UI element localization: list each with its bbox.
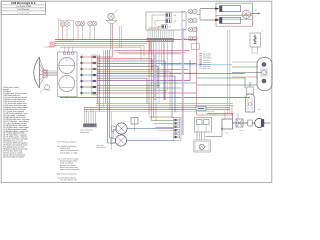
- fuel gauge: [59, 76, 75, 92]
- wiper feed wires: [197, 9, 202, 20]
- wire green mid 2: [150, 82, 197, 84]
- dynamo body: [257, 58, 272, 91]
- svg-text:←: ←: [186, 141, 188, 143]
- title block box: [1, 1, 45, 14]
- fuse element 3: [162, 25, 172, 29]
- notes column text: [57, 142, 79, 182]
- wiper field arrow 2: [202, 19, 219, 21]
- svg-text:head dip: head dip: [203, 60, 209, 62]
- wire red feed 2: [55, 42, 150, 52]
- svg-text:under bonnet: under bonnet: [96, 146, 106, 149]
- svg-text:Carl Wehner: Carl Wehner: [17, 8, 30, 11]
- wire grey vert: [102, 50, 104, 107]
- horn earth drop: [111, 112, 113, 151]
- wire purple mid: [97, 61, 165, 100]
- junction block leads: [84, 107, 95, 123]
- title text line 2: [16, 5, 32, 8]
- wire pink low: [84, 111, 215, 113]
- wiper group red box: [216, 16, 253, 27]
- svg-text:1948 Morris Eight Sr E: 1948 Morris Eight Sr E: [11, 2, 36, 5]
- wire cyan low 2: [96, 104, 233, 106]
- wire red vert 2: [104, 50, 106, 103]
- lamp pair tail RH: [188, 9, 197, 14]
- headlamp reflector: [34, 57, 40, 88]
- wiper motor output lead: [251, 10, 260, 14]
- foot dimmer sketch: [40, 84, 50, 94]
- control box: [146, 12, 186, 30]
- ignition mini legend: [199, 54, 211, 70]
- horn output wires: [127, 129, 174, 141]
- lamp pair tail LH: [188, 18, 197, 23]
- ignition coil: [246, 94, 255, 112]
- wire green long 2: [66, 97, 68, 98]
- svg-text:F: F: [262, 31, 263, 33]
- panel lamp leads: [63, 26, 95, 40]
- lamp pair stop: [188, 36, 197, 41]
- coil lead: [249, 82, 251, 87]
- speedometer: [59, 58, 75, 74]
- interior lamp shade: [106, 20, 117, 23]
- headlamp harness: [48, 71, 58, 76]
- wire red main: [97, 72, 196, 74]
- svg-text:panel feed: panel feed: [203, 68, 211, 70]
- wire dark right: [197, 84, 258, 86]
- title text line 3: [17, 8, 30, 11]
- wire red feed 1: [55, 39, 197, 41]
- horn trumpet 2: [111, 138, 116, 144]
- svg-text:behind dash: behind dash: [80, 132, 89, 134]
- svg-text:panel: panel: [57, 18, 62, 20]
- svg-text:rev 2 Jan 2004: rev 2 Jan 2004: [17, 13, 29, 15]
- lamp pair number plate: [188, 27, 197, 32]
- chassis connector strip: [174, 118, 182, 141]
- wire purple mid 2: [97, 60, 190, 81]
- strip A to B jumpers: [82, 57, 92, 93]
- wiper park switch: [220, 6, 241, 12]
- wire tan mid 1: [97, 68, 188, 70]
- lamp column feed wire: [182, 12, 186, 39]
- instrument top terminals: [64, 48, 74, 55]
- panel cluster label: [57, 18, 62, 20]
- headlamp label: [44, 46, 54, 48]
- flasher element: [253, 35, 256, 45]
- wire dark mid: [97, 66, 158, 88]
- horn trumpet 1: [112, 126, 117, 132]
- svg-text:horn feed: horn feed: [203, 64, 210, 66]
- legend: wiring colour codes list: [3, 87, 29, 158]
- wire tan feed 1: [55, 45, 144, 56]
- regulator leads down: [197, 132, 204, 140]
- svg-text:34 Interior light and switch: 34 Interior light and switch: [3, 156, 24, 159]
- interior lamp wires: [111, 24, 113, 51]
- wire cyan mid: [161, 64, 232, 66]
- svg-text:head main: head main: [203, 62, 211, 64]
- title text line 4: [17, 13, 29, 15]
- starter motor: [255, 118, 271, 127]
- inline connector on harness: [196, 106, 206, 110]
- wire dark mid 2: [97, 78, 147, 104]
- harness verticals below fuse strip: [149, 42, 172, 122]
- fuse element 2: [166, 19, 177, 23]
- wire red vert: [96, 57, 98, 104]
- battery box: [222, 119, 233, 135]
- wire cyan low 1: [96, 102, 233, 104]
- wire brown low: [84, 106, 230, 108]
- ignition switch drops: [120, 26, 122, 48]
- title block row lines: [1, 5, 45, 11]
- fuel pump box: [194, 140, 211, 152]
- horn feed wires: [108, 130, 116, 144]
- horn low note: [115, 135, 126, 146]
- coil cap: [247, 87, 254, 94]
- dynamo internals: [261, 63, 267, 84]
- lamp column box: [192, 44, 200, 50]
- chassis strip leads: [149, 117, 174, 131]
- border frame: [1, 1, 272, 182]
- terminal strip under control box: [147, 38, 175, 41]
- wire dkgreen mid: [97, 62, 196, 64]
- panel warning lamps pair 3: [88, 21, 97, 26]
- pink wire pair: [228, 30, 230, 113]
- wire tan feed 2: [60, 47, 141, 60]
- svg-text:side lamps: side lamps: [203, 58, 211, 60]
- dynamo leads: [232, 62, 261, 77]
- terminal strip pin leads: [148, 30, 173, 38]
- flasher lower block: [252, 47, 258, 53]
- wire green mid 3: [97, 87, 181, 89]
- wiper field arrow 1: [202, 7, 219, 9]
- coil label: [258, 109, 261, 111]
- title text line 1: [11, 2, 36, 5]
- wiper motor: [242, 10, 251, 20]
- flasher label: [262, 31, 263, 33]
- svg-text:see the 1948 car info: see the 1948 car info: [60, 179, 77, 182]
- wire tan mid 3: [97, 89, 167, 91]
- svg-text:ds: ds: [140, 121, 142, 123]
- wire red mid 1: [97, 59, 152, 70]
- right area labels: [186, 129, 263, 143]
- horn note text: [96, 144, 106, 149]
- flasher unit box: [250, 33, 261, 47]
- lavender trunk: [182, 28, 184, 135]
- instrument panel box: [58, 52, 78, 97]
- wire tan mid 2: [97, 71, 170, 110]
- dip switch: [131, 118, 142, 132]
- wire bundle corner: [115, 51, 191, 54]
- panel lamp housing box: [59, 21, 74, 41]
- wire red branch: [97, 50, 112, 57]
- junction block label: [80, 129, 93, 134]
- svg-text:ign sw feed: ign sw feed: [203, 54, 211, 56]
- wire black low: [84, 109, 230, 111]
- ignition zone red box: [197, 26, 233, 115]
- wire green vert pair: [108, 50, 110, 143]
- bulkhead pin strip B pins: [93, 56, 96, 94]
- interior lamp bulb: [108, 10, 118, 20]
- wire black mid: [97, 84, 160, 86]
- horn high note: [116, 123, 127, 134]
- wire blue mid: [97, 76, 175, 112]
- svg-text:aux fused: aux fused: [203, 56, 210, 58]
- panel warning lamps pair 1: [60, 22, 69, 27]
- bulkhead pin strip A: [81, 55, 83, 96]
- fuel pump feed: [206, 127, 224, 137]
- wiper limit switch: [220, 17, 241, 23]
- cutout fuse box: [236, 119, 243, 127]
- wire green right 1: [197, 72, 246, 74]
- svg-text:Advise latest wiring loom: Advise latest wiring loom: [57, 172, 77, 175]
- wiper group green box: [216, 3, 253, 19]
- svg-text:+ve Earth 1948: +ve Earth 1948: [16, 5, 32, 8]
- svg-text:The 12 Primary Snap for: The 12 Primary Snap for: [57, 142, 77, 144]
- control box internal wires: [149, 15, 166, 30]
- battery earth: [225, 111, 238, 120]
- svg-text:woven having snap plug: woven having snap plug: [60, 169, 79, 171]
- fuse element 1: [166, 13, 177, 17]
- svg-text:wiper feed: wiper feed: [203, 66, 210, 68]
- wire green right 2: [197, 78, 246, 88]
- lavender trunk 2: [154, 55, 156, 100]
- starter switch block: [248, 120, 252, 126]
- wire red low: [207, 114, 233, 119]
- wire grey feed: [55, 43, 147, 45]
- bulkhead pin strip B box: [92, 55, 97, 95]
- headlamp connector block: [43, 70, 48, 77]
- wire green long: [60, 97, 250, 99]
- wire purple vert: [98, 55, 100, 111]
- panel feed connector: [50, 42, 55, 47]
- regulator box: [195, 118, 212, 133]
- svg-text:pull up lights on. Tight: pull up lights on. Tight: [60, 151, 78, 154]
- wire dkred mid: [97, 92, 196, 94]
- junction block pins: [83, 124, 97, 127]
- headlamp bulb rays: [40, 59, 45, 86]
- panel warning lamps pair 2: [76, 21, 85, 26]
- starter cable: [233, 122, 255, 124]
